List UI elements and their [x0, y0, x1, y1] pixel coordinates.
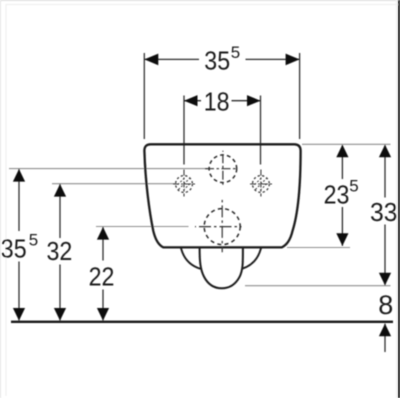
label 35.5 left [1, 230, 38, 263]
label 35.5 top [204, 43, 240, 76]
water supply circle crosshair [203, 168, 237, 170]
svg-text:23: 23 [324, 179, 350, 209]
extension line 18 right [260, 96, 262, 165]
frame top faint line [6, 4, 399, 6]
label 23.5 [324, 176, 359, 209]
svg-text:5: 5 [231, 43, 240, 62]
outlet outer curve right [242, 248, 261, 268]
svg-text:32: 32 [47, 236, 73, 266]
dimension 23.5 (right) [341, 145, 343, 179]
frame right faint line [396, 0, 398, 398]
dimension 22 height [102, 227, 104, 261]
reference line bottom of pan (23.5) [287, 247, 350, 249]
water supply circle (dashed) [209, 155, 237, 183]
fixing hole left (hatched circle) [173, 170, 195, 197]
outlet circle crosshair [195, 226, 242, 228]
outlet circle (dashed) [204, 209, 240, 245]
fixing hole right (hatched circle) [250, 170, 272, 197]
outlet pipe U [200, 248, 243, 288]
svg-text:5: 5 [29, 230, 38, 249]
frame top edge gray [0, 0, 400, 2]
svg-text:8: 8 [378, 290, 393, 320]
svg-text:22: 22 [89, 261, 115, 291]
dimension 33 (right) [384, 145, 386, 198]
reference line top of pan (right) [302, 143, 391, 145]
outlet outer curve left [181, 248, 201, 268]
dimension line 35.5 width [144, 58, 199, 60]
extension line 35.5 width left [143, 53, 145, 139]
dimension 35.5 height (left) [18, 169, 20, 231]
pan body outline [144, 144, 300, 247]
reference line bottom of outlet (33 / 8) [245, 285, 391, 287]
floor line [11, 321, 393, 323]
svg-text:35: 35 [1, 234, 27, 264]
leader line 32 height (to fixing holes centre) [52, 183, 175, 185]
svg-text:35: 35 [204, 46, 230, 76]
dimension line 18 [184, 100, 201, 102]
leader line 22 height (to outlet circle centre) [96, 226, 189, 228]
svg-text:5: 5 [349, 176, 358, 195]
extension line 18 left [183, 96, 185, 165]
frame left edge gray [0, 0, 2, 398]
extension line 35.5 width right [299, 53, 301, 139]
frame right dark border [398, 0, 400, 398]
svg-text:18: 18 [204, 86, 230, 116]
dimension 32 height [59, 184, 61, 238]
dimension 8 lower arrow (below floor) [384, 324, 386, 352]
frame left faint line [5, 4, 7, 396]
svg-text:33: 33 [370, 197, 398, 227]
leader line 35.5 height (to top circle centre) [9, 168, 209, 170]
